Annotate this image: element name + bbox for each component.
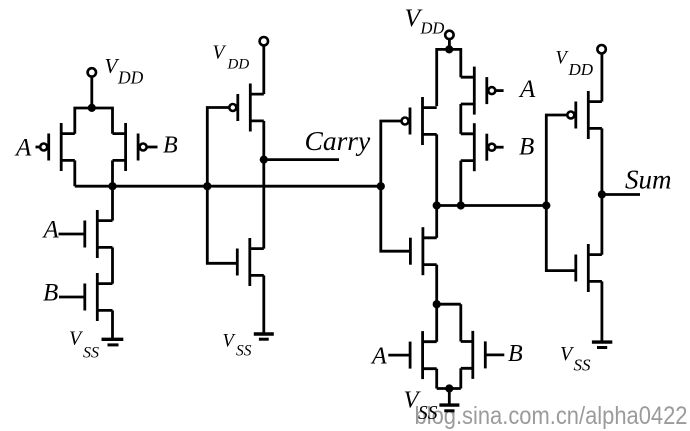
svg-text:B: B — [508, 341, 523, 367]
node VDD1 junction — [88, 104, 96, 112]
wire P7 drain to N7 drain — [601, 128, 604, 254]
node sum output junction — [598, 190, 606, 198]
label A (N5 gate) — [370, 344, 387, 370]
node section1 output junction — [108, 182, 116, 190]
nmos N4 (gate from carry-bar, section3) — [410, 227, 436, 275]
wire N1 to N2 — [111, 247, 114, 283]
node N4-N5 junction — [433, 300, 441, 308]
label B (P6 gate) — [519, 134, 534, 161]
pmos P4 (gate from carry-bar, section3) — [402, 97, 437, 145]
svg-text:SS: SS — [574, 355, 592, 374]
wire P6 drain down — [459, 161, 462, 206]
wire N5 drain down — [435, 369, 438, 389]
wire P1 drain down — [73, 160, 76, 186]
nmos N2 (gate B, section1 pull-down bottom) — [59, 273, 113, 321]
nmos N1 (gate A, section1 pull-down top) — [59, 210, 113, 258]
wire rail N4 to N6 — [437, 303, 461, 306]
ground VSS1 — [102, 339, 124, 345]
label VSS1 — [69, 328, 99, 362]
node section3 input tap — [377, 182, 385, 190]
label VDD4 — [556, 48, 594, 78]
nmos N6 (gate B, section3 parallel right) — [461, 331, 505, 379]
svg-text:B: B — [163, 133, 178, 159]
wire section3 input (bus end to P4/N4 gates) — [381, 121, 411, 251]
node rail3 mid junction — [457, 201, 465, 209]
pmos P3 (carry inverter pull-up) — [229, 84, 263, 132]
wire sum inverter input (rail3 tap to P7/N7 gates) — [546, 115, 576, 271]
VDD terminal (section 1) — [88, 68, 96, 76]
pmos P2 (gate B, section1 pull-up right) — [113, 123, 158, 171]
wire P5 to P6 — [459, 104, 462, 134]
wire Carry output — [264, 158, 339, 161]
svg-text:B: B — [43, 280, 58, 307]
label B (P2 gate) — [163, 133, 178, 159]
ground VSS2 — [254, 334, 274, 339]
wire N4 drain down to pair — [435, 265, 438, 342]
VDD terminal (section 4) — [597, 45, 605, 53]
svg-text:DD: DD — [420, 19, 445, 38]
label A (P5 gate) — [518, 76, 536, 103]
wire VDD1 stem — [90, 77, 93, 108]
label Carry — [305, 125, 371, 156]
svg-text:Carry: Carry — [305, 125, 371, 156]
svg-text:SS: SS — [236, 342, 252, 359]
wire inverter input (bus tap to P3/N3 gates) — [207, 108, 237, 264]
svg-text:DD: DD — [568, 60, 594, 79]
wire bus to N1 — [111, 186, 114, 220]
svg-text:DD: DD — [227, 56, 250, 72]
ground VSS4 — [592, 342, 612, 347]
svg-text:Sum: Sum — [625, 165, 672, 195]
label VSS2 — [223, 331, 252, 359]
node carry input tap — [203, 182, 211, 190]
VDD terminal (section 2) — [260, 37, 268, 45]
pmos P1 (gate A, section1 pull-up left) — [36, 123, 75, 171]
svg-text:DD: DD — [117, 68, 144, 88]
wire N3 to ground2 — [262, 275, 265, 333]
label B (N6 gate) — [508, 341, 523, 367]
wire P4 drain down — [435, 134, 438, 205]
label VSS4 — [560, 343, 591, 375]
pmos P5 (gate A, section3 series) — [461, 67, 504, 115]
svg-text:A: A — [14, 135, 32, 162]
wire rail3 to N4 — [435, 206, 438, 238]
wire to ground3 — [448, 389, 451, 405]
label B (N2 gate) — [43, 280, 58, 307]
label Sum — [625, 165, 672, 195]
wire VDD4 stem — [601, 53, 604, 101]
label VDD3 — [405, 3, 445, 37]
label VDD1 — [105, 54, 144, 88]
svg-text:V: V — [213, 42, 227, 63]
nmos N7 (sum inverter pull-down) — [576, 244, 602, 292]
pmos P6 (gate B, section3 series) — [461, 123, 504, 171]
wire top rail section3 — [437, 49, 461, 106]
node ground3 junction — [445, 384, 453, 392]
node carry output junction — [260, 156, 268, 164]
svg-text:A: A — [518, 76, 536, 103]
node rail3 left junction — [433, 201, 441, 209]
svg-text:B: B — [519, 134, 534, 161]
svg-text:A: A — [370, 344, 387, 370]
node rail3 right junction (sum gate tap) — [542, 201, 550, 209]
ground VSS3 — [439, 405, 459, 411]
svg-text:SS: SS — [418, 403, 438, 424]
wire Sum output — [602, 193, 640, 196]
wire P2 drain down — [111, 160, 114, 186]
wire VDD2 stem — [262, 45, 265, 94]
nmos N5 (gate A, section3 parallel left) — [388, 331, 436, 379]
svg-text:A: A — [42, 217, 60, 244]
VDD terminal (section 3) — [445, 31, 453, 39]
wire main bus (carry-bar node) — [75, 185, 381, 188]
wire down to N6 — [459, 304, 462, 341]
wire N6 drain down — [459, 368, 462, 388]
nmos N3 (carry inverter pull-down) — [237, 238, 263, 286]
wire VDD3 stem — [448, 39, 451, 49]
wire N7 to ground4 — [601, 281, 604, 341]
label VDD2 — [213, 42, 250, 72]
wire N2 to ground1 — [111, 310, 114, 338]
wire section3 output rail — [437, 204, 547, 207]
wire top rail section1 — [75, 108, 113, 134]
wire P3 drain to N3 drain — [262, 121, 265, 249]
node VDD3 junction — [445, 45, 453, 53]
label VSS3 — [404, 387, 438, 425]
label A (P1 gate) — [14, 135, 32, 162]
wire bottom rail section3 — [437, 387, 461, 390]
svg-text:SS: SS — [83, 345, 99, 362]
pmos P7 (sum inverter pull-up) — [567, 91, 602, 139]
label A (N1 gate) — [42, 217, 60, 244]
